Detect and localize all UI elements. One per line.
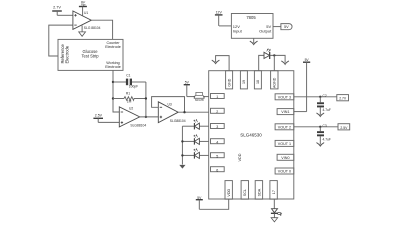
svg-text:Output: Output bbox=[259, 29, 272, 34]
svg-text:7805: 7805 bbox=[246, 15, 256, 20]
node junction U2 output bbox=[145, 116, 147, 118]
wire working electrode down to U2 inverting input bbox=[113, 70, 119, 112]
wire 5V to VDD pin bbox=[199, 199, 228, 209]
svg-text:AGND: AGND bbox=[273, 77, 277, 88]
svg-text:2.7V: 2.7V bbox=[53, 6, 61, 10]
wire U1 output to counter electrode bbox=[91, 20, 112, 39]
svg-text:U2: U2 bbox=[129, 107, 133, 111]
svg-text:GND: GND bbox=[227, 78, 231, 86]
svg-text:SW1-PB: SW1-PB bbox=[195, 100, 204, 102]
svg-text:VDD: VDD bbox=[238, 153, 242, 161]
op-amp U3 bbox=[158, 102, 185, 123]
svg-text:2: 2 bbox=[216, 110, 218, 114]
IC U4 SLG46530 bbox=[209, 71, 294, 199]
wire D5 to ground bbox=[273, 213, 275, 217]
wire 5V to VIN1 bbox=[294, 111, 307, 113]
pin VOUT 0 bbox=[275, 168, 294, 174]
svg-text:12V: 12V bbox=[216, 10, 223, 14]
wire GND pin to ground bbox=[216, 56, 230, 71]
pin AGND top bbox=[271, 71, 278, 89]
svg-text:C1: C1 bbox=[126, 73, 130, 77]
svg-text:U1: U1 bbox=[84, 11, 88, 15]
capacitor C1 bbox=[113, 73, 146, 88]
svg-text:4.7uF: 4.7uF bbox=[323, 138, 331, 142]
svg-text:VOUT 2: VOUT 2 bbox=[278, 125, 291, 129]
ground under U1 bbox=[79, 26, 86, 37]
LED D5 bbox=[271, 209, 282, 216]
pin VOUT 2 bbox=[275, 124, 294, 130]
svg-text:SLG 88104: SLG 88104 bbox=[84, 26, 101, 30]
svg-text:Electrode: Electrode bbox=[105, 65, 121, 69]
wire 2.7V to U1 + input bbox=[57, 14, 73, 16]
svg-text:2.5V: 2.5V bbox=[95, 114, 103, 118]
svg-text:1M: 1M bbox=[127, 99, 132, 103]
ground 7805 bbox=[250, 38, 257, 44]
svg-text:18: 18 bbox=[256, 80, 260, 84]
svg-text:Electrode: Electrode bbox=[65, 45, 70, 63]
power flag above U1 bbox=[79, 1, 87, 16]
LED D3 on pin 4 bbox=[182, 134, 208, 144]
ground C2 bbox=[317, 113, 324, 116]
pin VDD bottom bbox=[225, 181, 232, 200]
svg-text:5V: 5V bbox=[305, 58, 310, 62]
node junction working/R1 bbox=[112, 97, 114, 99]
svg-text:SLG88104: SLG88104 bbox=[170, 119, 186, 123]
pin VOUT 1 bbox=[275, 140, 294, 146]
wire pin 17 to LED D5 bbox=[273, 199, 275, 209]
svg-text:2.5V: 2.5V bbox=[340, 126, 348, 130]
svg-text:VOUT 3: VOUT 3 bbox=[278, 95, 291, 99]
pin 3 bbox=[211, 124, 225, 130]
glucose test strip box bbox=[58, 39, 123, 70]
power flag 5V bottom bbox=[196, 196, 203, 209]
ground LED bus bbox=[179, 165, 185, 169]
svg-text:C2: C2 bbox=[323, 94, 327, 98]
pin 17 bottom bbox=[270, 181, 277, 200]
pin 4 bbox=[211, 139, 225, 145]
svg-text:SDA: SDA bbox=[257, 188, 261, 196]
svg-text:VOUT 1: VOUT 1 bbox=[278, 142, 291, 146]
net label 5V bbox=[281, 24, 292, 30]
wire AGND pin up bbox=[273, 55, 275, 70]
pin VOUT 3 bbox=[275, 94, 294, 100]
ground C3 bbox=[317, 143, 324, 146]
pin 19 top bbox=[240, 71, 247, 89]
svg-text:6: 6 bbox=[216, 168, 218, 172]
svg-text:1: 1 bbox=[216, 95, 218, 99]
node junction R1/feedback bbox=[145, 97, 147, 99]
wire 7805 output bbox=[273, 26, 281, 28]
power flag 12V bbox=[215, 10, 223, 26]
feedback wire right side down to U2 output bbox=[145, 82, 147, 117]
power flag 5V right bbox=[303, 58, 310, 112]
pushbutton S1 bbox=[194, 92, 205, 102]
pin GND top bbox=[226, 71, 233, 89]
pin 18 top bbox=[254, 71, 261, 89]
ground D5 bbox=[271, 218, 278, 222]
pin 6 bbox=[211, 167, 225, 173]
svg-text:Test Strip: Test Strip bbox=[81, 54, 99, 59]
resistor R1 bbox=[113, 92, 146, 104]
svg-text:3: 3 bbox=[216, 125, 218, 129]
power flag 2.5V bbox=[93, 114, 103, 123]
pin 2 bbox=[211, 108, 225, 114]
pin VIN0 bbox=[277, 154, 294, 160]
power flag 5V near switch bbox=[184, 81, 190, 97]
node junction working/C1 bbox=[112, 81, 114, 83]
node junction D1 cathode/AGND bbox=[273, 54, 275, 56]
pin 5 bbox=[211, 153, 225, 159]
wire switch to pin 1 bbox=[204, 96, 209, 98]
svg-text:SCL: SCL bbox=[243, 189, 247, 196]
pin 1 bbox=[211, 94, 225, 100]
svg-text:5V: 5V bbox=[284, 25, 289, 29]
op-amp U2 bbox=[119, 107, 146, 128]
svg-text:17: 17 bbox=[272, 190, 276, 194]
svg-text:VIN0: VIN0 bbox=[281, 156, 289, 160]
svg-text:Input: Input bbox=[233, 29, 243, 34]
wire 12V to regulator input bbox=[219, 25, 231, 27]
svg-text:4: 4 bbox=[216, 140, 218, 144]
svg-text:4.7uF: 4.7uF bbox=[323, 108, 331, 112]
svg-text:C3: C3 bbox=[323, 124, 327, 128]
pin SCL bottom bbox=[241, 181, 248, 200]
svg-text:SLG88104: SLG88104 bbox=[130, 124, 146, 128]
voltage regulator 7805 bbox=[231, 14, 273, 39]
wire U2 output to U3 + input bbox=[140, 116, 159, 118]
pin VIN1 bbox=[277, 109, 294, 115]
ground GND pin bbox=[212, 60, 219, 63]
svg-text:VDD: VDD bbox=[227, 188, 231, 196]
node junction VOUT2/C3 bbox=[319, 126, 321, 128]
LED cathode bus wire bbox=[181, 126, 183, 164]
wire D1 cathode / AGND node bbox=[270, 55, 286, 62]
svg-text:VOUT 0: VOUT 0 bbox=[278, 170, 291, 174]
svg-text:100pF: 100pF bbox=[129, 85, 138, 89]
svg-text:19: 19 bbox=[242, 80, 246, 84]
node junction bus/D4 bbox=[181, 154, 183, 156]
wire VOUT 3 net bbox=[294, 96, 337, 98]
LED D4 on pin 5 bbox=[182, 148, 208, 158]
wire U1 inverting input to reference electrode bbox=[49, 25, 73, 56]
wire U3 output to pin 2 bbox=[178, 111, 209, 113]
net label 2.7V bbox=[337, 95, 349, 101]
wire 5V flag to switch bbox=[187, 96, 195, 98]
svg-text:VIN1: VIN1 bbox=[281, 110, 289, 114]
wire pin 18 to LED D1 anode bbox=[259, 55, 264, 70]
net label 2.5V bbox=[338, 124, 350, 130]
node junction bus/D3 bbox=[181, 140, 183, 142]
svg-text:Electrode: Electrode bbox=[105, 45, 121, 49]
node junction U3 output/feedback bbox=[183, 111, 185, 113]
wire 2.5V to U2 + input bbox=[98, 121, 119, 123]
capacitor C3 bbox=[317, 124, 331, 144]
pin SDA bottom bbox=[255, 181, 262, 200]
svg-text:U3: U3 bbox=[168, 103, 172, 107]
svg-text:5: 5 bbox=[216, 154, 218, 158]
wire VOUT 2 net bbox=[294, 126, 338, 128]
LED D1 bbox=[264, 48, 271, 59]
svg-text:2.7V: 2.7V bbox=[339, 96, 347, 100]
svg-text:SLG46530: SLG46530 bbox=[240, 133, 262, 138]
ground AGND node bbox=[282, 61, 289, 64]
power flag 2.7V bbox=[52, 6, 62, 16]
LED D2 on pin 3 bbox=[182, 119, 208, 129]
capacitor C2 bbox=[317, 94, 331, 115]
node junction VOUT3/C2 bbox=[319, 96, 321, 98]
feedback wire U3 output to inverting input bbox=[152, 97, 185, 113]
svg-text:R1: R1 bbox=[126, 92, 130, 96]
op-amp U1 bbox=[73, 11, 101, 30]
